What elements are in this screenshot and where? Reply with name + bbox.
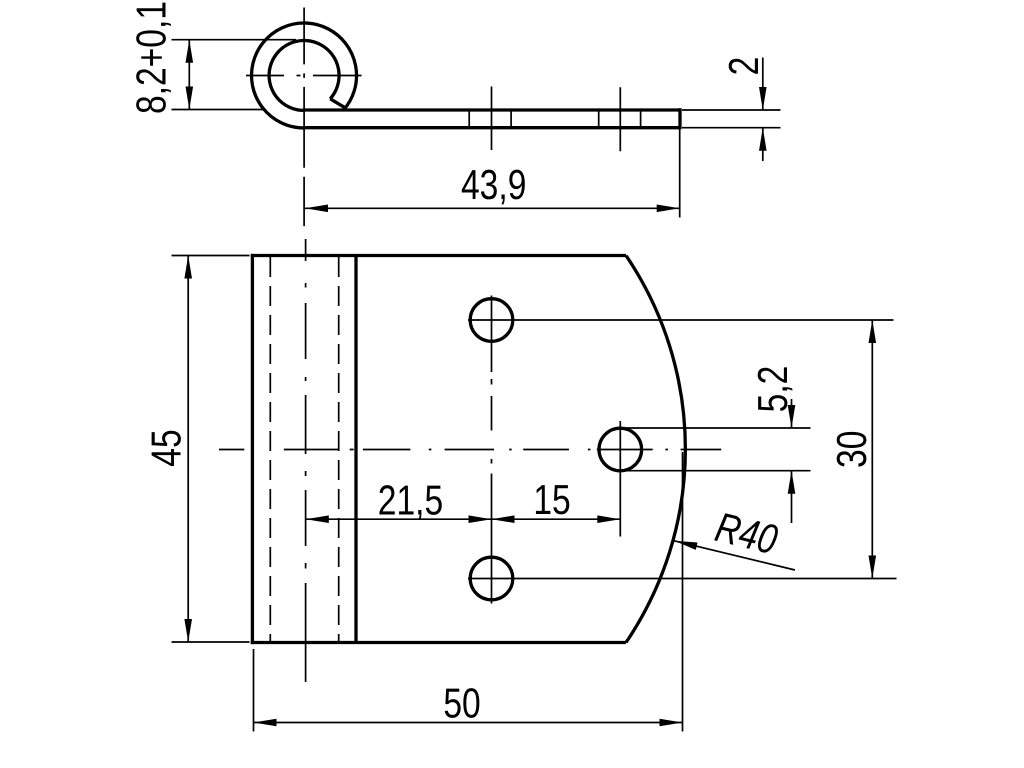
dim 21,5: right arrow <box>469 515 492 523</box>
front view: main horizontal centerline <box>219 449 721 451</box>
svg-text:30: 30 <box>828 431 875 468</box>
side view: curl outer circle <box>252 23 357 128</box>
dim 5,2: upper arrow <box>788 405 796 428</box>
dim 43,9: right arrow <box>657 205 680 213</box>
dim 45: bottom extension line <box>172 641 250 643</box>
dim 2: lower arrow <box>759 128 767 151</box>
dim 45: top extension line <box>172 255 250 257</box>
front view: bottom hole <box>470 557 513 600</box>
side view: hole centerline x620 <box>619 87 621 151</box>
svg-text:50: 50 <box>443 679 480 726</box>
front view: band vertical centerline <box>305 239 307 682</box>
front view: left edge <box>251 254 254 644</box>
front view: middle hole <box>599 428 642 471</box>
svg-text:8,2+0,1: 8,2+0,1 <box>128 1 175 114</box>
side view: strip cut end face <box>330 99 345 108</box>
svg-text:45: 45 <box>142 429 189 466</box>
front view: hidden dashed line x270 <box>269 257 271 641</box>
dim 21,5: text <box>378 476 443 523</box>
dim 45: top arrow <box>184 256 192 279</box>
front view: top hole <box>470 299 513 342</box>
svg-text:15: 15 <box>533 476 570 523</box>
side view: strip top edge <box>303 108 681 111</box>
dim 45: text <box>142 429 189 466</box>
dim 21,5: left arrow <box>306 515 329 523</box>
front view: hidden dashed line x338 <box>338 257 340 641</box>
side view: curl vertical centerline <box>303 8 305 227</box>
dim 2: bottom extension line <box>682 127 781 129</box>
side view: strip right end edge <box>678 108 681 129</box>
dim 50: dimension line <box>254 722 683 724</box>
dim 30: bottom extension line from bottom hole <box>468 578 897 580</box>
side view: curl inner circle <box>269 41 339 111</box>
dim 8,2+0,1: bottom extension line <box>172 109 265 111</box>
front view: top edge <box>251 254 626 257</box>
dim 15: left arrow <box>492 515 515 523</box>
front view: R40 arc right edge <box>626 256 685 643</box>
dim 8,2+0,1: top arrow <box>186 40 194 63</box>
dim 30: top arrow <box>869 320 877 343</box>
side view: curl horizontal centerline <box>246 75 284 77</box>
side view: hole silhouette tick x599 <box>598 109 600 127</box>
dim 8,2+0,1: top extension line <box>172 39 297 41</box>
front view: curl tangent line <box>354 256 357 643</box>
svg-text:2: 2 <box>720 57 767 76</box>
svg-text:43,9: 43,9 <box>461 161 526 208</box>
dim 30: text <box>828 431 875 468</box>
dim 50: left arrow <box>254 719 277 727</box>
side view: strip bottom edge <box>304 126 680 129</box>
dim 2: upper dimension line <box>762 58 764 111</box>
dim 30: bottom arrow <box>869 556 877 579</box>
dim 5,2: bottom extension line <box>622 470 811 472</box>
dim 5,2: lower dimension line <box>791 471 793 523</box>
dim 43,9: right extension line <box>679 130 681 218</box>
dim 2: lower dimension line <box>762 128 764 161</box>
dim 15: dimension line <box>492 518 621 520</box>
dim 2: upper arrow <box>759 87 767 110</box>
side view: hole silhouette tick x641 <box>640 109 642 127</box>
dim 30: dimension line <box>871 320 873 579</box>
dim 8,2+0,1: dimension line <box>188 40 190 110</box>
dim 43,9: left arrow <box>305 205 328 213</box>
dim R40: text <box>711 503 782 563</box>
dim 50: right extension line <box>682 452 684 732</box>
dim 5,2: upper dimension line <box>791 399 793 428</box>
svg-text:21,5: 21,5 <box>378 476 443 523</box>
dim 5,2: lower arrow <box>788 471 796 494</box>
dim 50: right arrow <box>660 719 683 727</box>
dim R40: leader arrow <box>674 541 697 550</box>
svg-text:R40: R40 <box>711 503 782 563</box>
dim 50: text <box>443 679 480 726</box>
front view: middle hole vertical centerline <box>619 421 621 537</box>
side view: hole silhouette tick x511 <box>510 109 512 127</box>
side view: hole centerline x491 <box>491 87 493 151</box>
dim 2: top extension line <box>682 109 781 111</box>
dim 8,2+0,1: text <box>128 1 175 114</box>
front view: bottom edge <box>251 641 626 644</box>
front view: holes vertical centerline dashdot <box>491 379 493 385</box>
dim 15: right arrow <box>597 515 620 523</box>
dim 5,2: top extension line <box>622 427 811 429</box>
front view: bottom hole vertical centerline <box>491 474 493 604</box>
dim 15: text <box>533 476 570 523</box>
dim 2: text <box>720 57 767 76</box>
dim 30: top extension line from top hole <box>468 319 894 321</box>
dim 8,2+0,1: bottom arrow <box>186 87 194 110</box>
svg-text:5,2: 5,2 <box>749 366 796 413</box>
dim 43,9: text <box>461 161 526 208</box>
side view: hole silhouette tick x469 <box>468 109 470 127</box>
dim 21,5: dimension line <box>306 518 492 520</box>
dim 45: dimension line <box>187 256 189 643</box>
dim 50: left extension line <box>253 649 255 732</box>
dim 45: bottom arrow <box>184 619 192 642</box>
front view: top hole vertical centerline <box>491 296 493 373</box>
dim 43,9: dimension line <box>305 207 680 209</box>
dim R40: leader line <box>674 541 795 570</box>
dim 5,2: text <box>749 366 796 413</box>
